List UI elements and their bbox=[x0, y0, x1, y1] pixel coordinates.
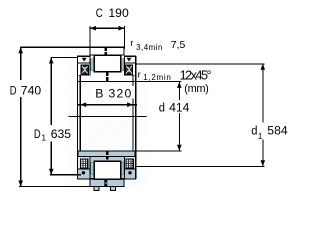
top inner ring centre flange bbox=[94, 55, 120, 71]
right side face lines bbox=[133, 56, 136, 179]
dimension d1 vertical line bbox=[261, 64, 266, 167]
bottom outer ring right tab bbox=[110, 186, 115, 190]
bottom-left roller box bbox=[78, 156, 91, 169]
svg-text:1: 1 bbox=[258, 131, 263, 141]
bottom-right cage box with rivet dot bbox=[124, 169, 135, 179]
bottom inner ring centre flange bbox=[94, 161, 120, 179]
dimension D vertical line bbox=[18, 47, 23, 186]
C right extension line bbox=[123, 26, 125, 49]
label r3,4min 7,5 bbox=[130, 38, 185, 52]
top-left cage box bbox=[78, 56, 91, 63]
bottom-right roller bbox=[126, 159, 133, 168]
top-right roller bbox=[125, 65, 132, 74]
svg-text:d: d bbox=[159, 101, 165, 115]
svg-text:D: D bbox=[10, 84, 17, 98]
svg-text:C: C bbox=[96, 6, 103, 20]
svg-text:740: 740 bbox=[21, 84, 42, 98]
svg-text:320: 320 bbox=[109, 86, 132, 100]
dimension B horizontal line bbox=[77, 102, 137, 107]
centerline (bearing axis) bbox=[68, 116, 146, 118]
label d 414 bbox=[159, 101, 190, 115]
bottom-left cage box with rivet dot bbox=[78, 169, 91, 179]
label r1,2min 12x45 bbox=[138, 68, 212, 82]
svg-text:(mm): (mm) bbox=[184, 83, 209, 95]
label B 320 bbox=[92, 86, 134, 101]
top-right roller box bbox=[124, 63, 135, 76]
svg-text:D: D bbox=[34, 127, 41, 141]
svg-text:635: 635 bbox=[51, 127, 72, 141]
bottom outer ring (blue) bbox=[90, 179, 124, 186]
hatched model-space background bbox=[68, 46, 146, 191]
bottom-right roller box bbox=[124, 156, 135, 169]
top inner-ring lube hole bbox=[106, 72, 109, 81]
dimension d vertical line bbox=[177, 82, 182, 151]
svg-text:r: r bbox=[138, 69, 141, 80]
D bottom extension line bbox=[19, 186, 124, 188]
bottom section middle body (blue) bbox=[80, 156, 133, 178]
top seal sliver left bbox=[91, 59, 94, 71]
left side face lines bbox=[78, 56, 81, 179]
D1 bottom extension line bbox=[50, 174, 81, 176]
bottom inner ring band (blue) bbox=[78, 151, 135, 157]
svg-text:B: B bbox=[95, 86, 103, 100]
top inner ring band bbox=[78, 75, 135, 81]
D top extension / outer ring OD line bbox=[21, 46, 125, 48]
C left extension line bbox=[89, 26, 91, 49]
top-left roller box bbox=[78, 63, 91, 76]
label d1 584 bbox=[251, 124, 288, 141]
bottom outer ring left tab bbox=[94, 186, 99, 190]
svg-text:3,4min: 3,4min bbox=[136, 43, 162, 52]
svg-text:414: 414 bbox=[169, 101, 190, 115]
label D1 635 bbox=[34, 127, 71, 142]
bottom outer-ring lube slot bbox=[105, 179, 108, 186]
top seal sliver right bbox=[121, 59, 124, 71]
top-left roller bbox=[81, 65, 88, 74]
svg-text:d: d bbox=[251, 124, 257, 138]
label D 740 bbox=[10, 84, 42, 98]
label C 190 bbox=[96, 6, 129, 20]
bore top line with d extension bbox=[78, 81, 182, 83]
bore bottom line with d extension bbox=[78, 150, 182, 152]
svg-text:1,2min: 1,2min bbox=[143, 73, 171, 82]
top outer ring bbox=[90, 47, 124, 55]
bottom inner-ring lube hole bbox=[106, 151, 109, 159]
bottom-left roller bbox=[81, 159, 88, 168]
dimension D1 vertical line bbox=[49, 58, 54, 175]
dimension C horizontal line bbox=[90, 26, 124, 31]
d1 top extension line bbox=[136, 63, 265, 65]
bottom seal sliver right bbox=[121, 162, 124, 174]
svg-text:584: 584 bbox=[267, 124, 288, 138]
top lubrication slot W33 bbox=[104, 48, 107, 55]
top-right cage box bbox=[124, 56, 135, 63]
D1 top extension line bbox=[51, 57, 77, 59]
d1 bottom extension line bbox=[136, 165, 265, 167]
svg-text:r: r bbox=[130, 38, 133, 49]
svg-text:7,5: 7,5 bbox=[171, 40, 186, 51]
svg-text:190: 190 bbox=[108, 6, 129, 20]
bottom seal sliver left bbox=[91, 162, 94, 174]
svg-text:1: 1 bbox=[41, 132, 46, 142]
svg-text:12x45°: 12x45° bbox=[180, 68, 212, 82]
